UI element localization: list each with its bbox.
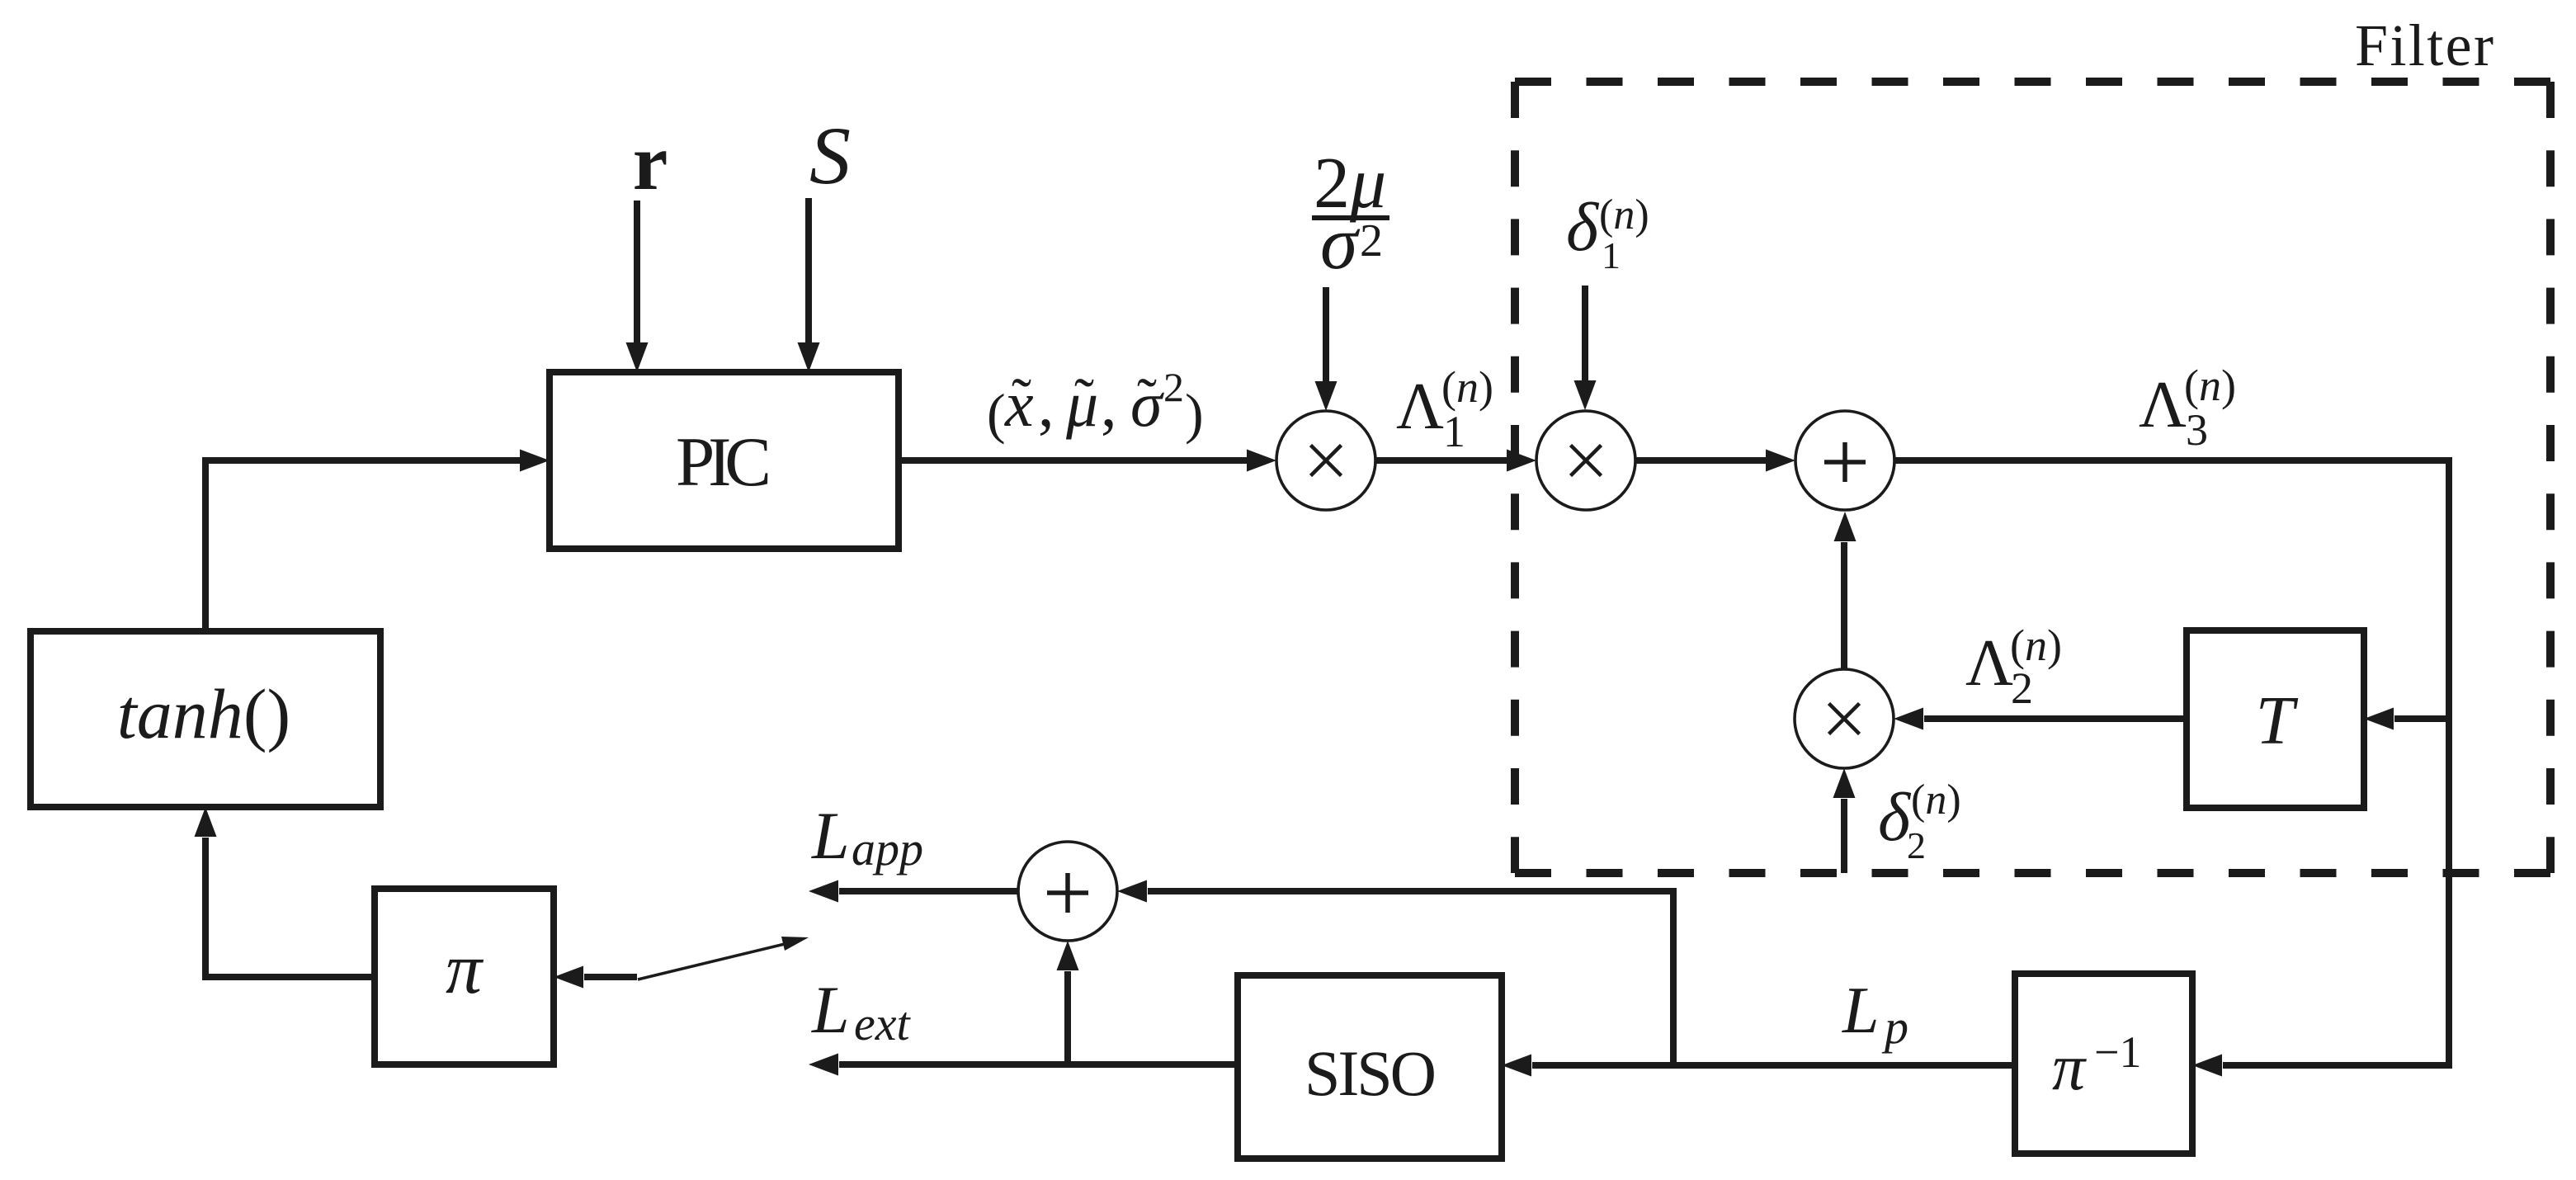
arrowhead into T right [2364, 708, 2394, 730]
arrowhead into A1 bottom [1834, 512, 1857, 541]
svg-text:(n): (n) [1911, 776, 1961, 824]
svg-text:Λ: Λ [2139, 369, 2187, 441]
arrowhead into A2 right [1117, 880, 1147, 903]
fraction bar [1312, 215, 1389, 220]
label Lambda3 [2139, 361, 2236, 455]
arrowhead into M2 left [1507, 450, 1536, 472]
svg-text:1: 1 [1443, 407, 1465, 456]
svg-text:1: 1 [1602, 234, 1621, 276]
wire pi-inverse output Lp to SISO [1532, 1062, 2015, 1069]
svg-text:(n): (n) [2010, 621, 2062, 670]
wire A2 output Lapp [839, 888, 1018, 894]
svg-text:S: S [809, 110, 851, 201]
arrowhead S into PIC top [798, 342, 820, 372]
dashed box Filter top edge [1515, 78, 2550, 86]
label Lambda2 [1965, 621, 2062, 713]
svg-text:L: L [1842, 975, 1880, 1047]
svg-text:˜: ˜ [1137, 366, 1157, 432]
svg-text:Λ: Λ [1396, 371, 1444, 443]
arrowhead into PIC left [520, 450, 550, 472]
svg-text:(n): (n) [1441, 362, 1493, 412]
svg-text:3: 3 [2186, 405, 2208, 455]
svg-text:2: 2 [1907, 824, 1926, 866]
label Lp [1842, 975, 1908, 1054]
arrowhead Lext output [809, 1054, 838, 1076]
wire PIC output to M1 [899, 457, 1249, 464]
wire switch to pi input [584, 974, 637, 980]
multiplier M3 circle [1795, 669, 1894, 768]
switch lever arm [638, 943, 788, 979]
svg-text:(: ( [987, 382, 1006, 445]
svg-text:T: T [2256, 682, 2299, 759]
multiplier M2 cross [1571, 446, 1602, 476]
svg-text:,: , [1038, 368, 1054, 440]
svg-text:2: 2 [1163, 364, 1184, 410]
svg-text:L: L [811, 972, 850, 1047]
multiplier M2 circle [1536, 411, 1635, 510]
svg-text:SISO: SISO [1305, 1037, 1437, 1109]
dashed box Filter left edge [1511, 82, 1519, 873]
wire Lext junction up to A2 [1064, 971, 1071, 1064]
svg-text:2: 2 [1360, 215, 1383, 267]
wire junction to T input [2394, 715, 2449, 722]
label delta2 [1878, 776, 1961, 866]
arrowhead into M1 left [1247, 450, 1276, 472]
wire M1 to M2 [1375, 457, 1509, 464]
label x mu sigma tuple [987, 364, 1204, 445]
wire r input arrow [634, 201, 640, 344]
block pi interleaver [375, 889, 554, 1064]
block pi inverse deinterleaver [2015, 974, 2192, 1154]
arrowhead into M3 bottom [1833, 768, 1856, 798]
svg-text:(n): (n) [2184, 361, 2236, 410]
arrowhead into A1 left [1766, 450, 1795, 472]
label Lapp [811, 798, 923, 876]
svg-text:2: 2 [2011, 663, 2033, 713]
label pi inverse [2052, 1027, 2141, 1104]
svg-text:p: p [1881, 1000, 1908, 1054]
arrowhead into pi-inverse right [2192, 1055, 2222, 1077]
label Lext [811, 972, 911, 1050]
svg-text:−1: −1 [2094, 1027, 2141, 1077]
arrowhead r into PIC top [626, 342, 649, 372]
adder A2 plus [1047, 873, 1088, 913]
svg-text:δ: δ [1566, 189, 1600, 266]
svg-text:app: app [852, 822, 923, 876]
svg-text:π: π [2052, 1031, 2087, 1104]
svg-text:,: , [1101, 368, 1117, 440]
wire M3 output up to A1 [1841, 542, 1847, 669]
dashed box Filter right edge [2546, 82, 2555, 873]
adder A2 circle [1018, 842, 1117, 941]
wire delta1 to M2 [1582, 286, 1588, 382]
svg-text:L: L [811, 798, 850, 873]
wire Lp junction up to A2 [1148, 891, 1673, 1065]
label delta1 [1566, 189, 1649, 276]
svg-text:ext: ext [854, 997, 911, 1050]
svg-text:): ) [1185, 382, 1204, 445]
arrowhead into pi right [554, 966, 583, 989]
adder A1 plus [1824, 442, 1866, 482]
wire delta2 to M3 [1841, 799, 1847, 873]
svg-text:r: r [633, 118, 668, 206]
wire T output to M3 [1924, 715, 2187, 722]
svg-text:π: π [446, 929, 484, 1009]
wire tanh output to PIC input [205, 460, 521, 631]
arrowhead switch lever [781, 937, 809, 951]
svg-text:Λ: Λ [1965, 627, 2013, 700]
svg-text:PIC: PIC [676, 423, 771, 501]
multiplier M1 circle [1276, 411, 1375, 510]
wire M2 to A1 [1635, 457, 1768, 464]
svg-text:σ: σ [1320, 201, 1361, 285]
svg-text:tanh(): tanh() [117, 674, 290, 753]
block SISO [1238, 975, 1502, 1159]
multiplier M1 cross [1311, 446, 1342, 476]
arrowhead into M3 right [1894, 708, 1923, 730]
adder A1 circle [1795, 411, 1894, 510]
svg-text:(n): (n) [1599, 191, 1649, 238]
arrowhead into M1 top [1315, 381, 1338, 411]
label fraction sigma2 denominator [1320, 201, 1383, 285]
arrowhead into A2 bottom [1057, 941, 1079, 970]
arrowhead into SISO right [1502, 1055, 1531, 1077]
dashed box Filter bottom edge [1515, 869, 2550, 877]
wire pi output to tanh input [205, 838, 375, 977]
svg-text:˜: ˜ [1012, 366, 1031, 432]
wire 2mu/sigma2 to M1 [1323, 287, 1329, 383]
arrowhead into tanh bottom [195, 807, 217, 837]
block tanh [31, 631, 380, 807]
svg-text:˜: ˜ [1074, 366, 1094, 432]
wire A1 output Lambda3 to pi-inverse [1894, 460, 2449, 1065]
wire SISO output Lext [839, 1061, 1238, 1068]
label Lambda1 [1396, 362, 1493, 456]
block PIC [550, 372, 899, 549]
wire S input arrow [805, 198, 812, 344]
multiplier M3 cross [1829, 704, 1860, 734]
arrowhead into M2 top [1574, 380, 1597, 410]
arrowhead Lapp output [809, 880, 838, 903]
block T [2187, 630, 2364, 808]
